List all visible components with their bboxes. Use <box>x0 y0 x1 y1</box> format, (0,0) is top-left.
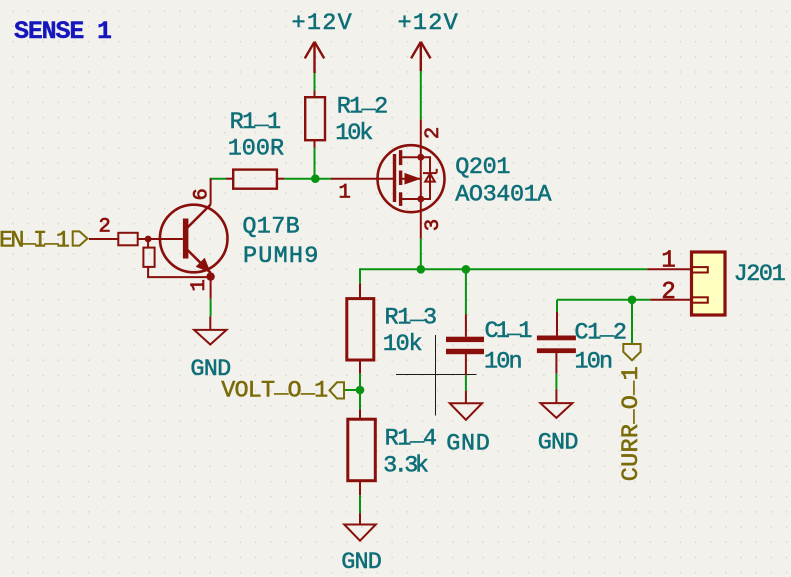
svg-text:EN_I_1: EN_I_1 <box>0 223 70 255</box>
svg-text:Q201: Q201 <box>455 154 510 181</box>
svg-text:AO3401A: AO3401A <box>455 181 552 208</box>
svg-text:+12V: +12V <box>292 10 352 37</box>
svg-text:CURR_O_1: CURR_O_1 <box>613 366 645 481</box>
svg-text:GND: GND <box>538 429 579 456</box>
svg-text:GND: GND <box>341 549 382 576</box>
svg-text:R1_1: R1_1 <box>230 104 282 136</box>
svg-text:10n: 10n <box>575 348 614 375</box>
svg-text:J201: J201 <box>734 261 786 288</box>
svg-text:1: 1 <box>661 247 675 274</box>
svg-text:3: 3 <box>422 219 445 231</box>
svg-text:10k: 10k <box>335 120 373 147</box>
svg-text:2: 2 <box>422 127 445 139</box>
svg-text:10k: 10k <box>383 331 423 358</box>
svg-text:GND: GND <box>446 431 490 458</box>
svg-text:2: 2 <box>98 216 110 239</box>
svg-text:C1_2: C1_2 <box>574 315 627 347</box>
svg-text:R1_4: R1_4 <box>385 421 437 453</box>
svg-text:C1_1: C1_1 <box>485 314 533 346</box>
svg-text:2: 2 <box>661 279 675 306</box>
svg-text:1: 1 <box>338 182 350 205</box>
svg-text:VOLT_O_1: VOLT_O_1 <box>221 373 328 405</box>
svg-text:+12V: +12V <box>398 10 458 37</box>
svg-text:3.3k: 3.3k <box>383 453 429 480</box>
svg-text:PUMH9: PUMH9 <box>243 243 318 270</box>
svg-text:Q17B: Q17B <box>242 213 299 240</box>
svg-text:100R: 100R <box>228 136 284 163</box>
svg-text:1: 1 <box>188 279 211 291</box>
svg-text:SENSE 1: SENSE 1 <box>14 17 112 46</box>
svg-text:R1_3: R1_3 <box>385 300 438 332</box>
svg-text:R1_2: R1_2 <box>337 89 389 121</box>
svg-text:6: 6 <box>191 188 214 200</box>
svg-text:10n: 10n <box>484 349 523 376</box>
